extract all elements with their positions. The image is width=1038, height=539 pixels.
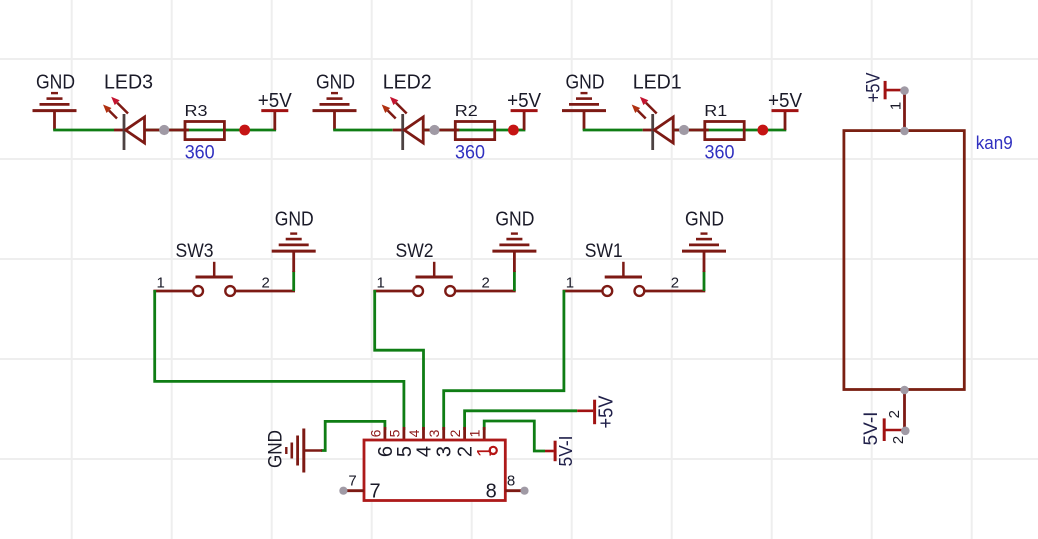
svg-text:4: 4: [414, 446, 436, 457]
svg-text:3: 3: [434, 446, 456, 457]
svg-text:GND: GND: [36, 71, 75, 93]
svg-text:R1: R1: [704, 103, 727, 120]
svg-text:LED3: LED3: [104, 71, 153, 93]
svg-text:GND: GND: [495, 208, 534, 230]
svg-text:360: 360: [705, 142, 735, 164]
svg-text:GND: GND: [685, 208, 724, 230]
svg-text:GND: GND: [316, 71, 355, 93]
svg-text:R2: R2: [455, 103, 478, 120]
svg-text:2: 2: [671, 274, 679, 291]
svg-text:2: 2: [886, 410, 903, 418]
svg-text:GND: GND: [275, 208, 314, 230]
svg-text:1: 1: [157, 274, 165, 291]
svg-text:2: 2: [447, 429, 463, 437]
svg-text:6: 6: [367, 429, 383, 437]
svg-text:+5V: +5V: [596, 395, 618, 429]
svg-text:360: 360: [185, 142, 215, 164]
svg-text:2: 2: [890, 436, 907, 444]
svg-text:1: 1: [566, 274, 574, 291]
svg-text:8: 8: [486, 481, 497, 503]
svg-text:5V-I: 5V-I: [861, 412, 882, 446]
svg-text:SW1: SW1: [585, 241, 623, 262]
svg-text:+5V: +5V: [507, 90, 542, 112]
svg-text:5V-I: 5V-I: [555, 436, 576, 467]
svg-text:1: 1: [888, 102, 905, 110]
svg-text:GND: GND: [566, 71, 605, 93]
svg-text:1: 1: [377, 274, 385, 291]
svg-text:SW3: SW3: [176, 241, 214, 262]
svg-text:5: 5: [386, 429, 402, 437]
svg-text:LED2: LED2: [383, 71, 432, 93]
svg-text:7: 7: [370, 481, 381, 503]
svg-text:7: 7: [348, 473, 356, 490]
svg-text:GND: GND: [266, 430, 287, 468]
svg-text:+5V: +5V: [768, 90, 803, 112]
svg-text:kan9: kan9: [976, 133, 1013, 153]
svg-text:3: 3: [426, 429, 442, 437]
svg-text:4: 4: [406, 429, 422, 437]
svg-text:2: 2: [262, 274, 270, 291]
svg-text:+5V: +5V: [864, 72, 885, 102]
svg-text:LED1: LED1: [633, 71, 682, 93]
svg-text:SW2: SW2: [396, 241, 434, 262]
svg-text:R3: R3: [185, 103, 208, 120]
svg-text:8: 8: [507, 473, 515, 490]
svg-text:2: 2: [482, 274, 490, 291]
svg-text:360: 360: [455, 142, 485, 164]
svg-text:+5V: +5V: [258, 90, 293, 112]
svg-text:1: 1: [467, 429, 483, 437]
